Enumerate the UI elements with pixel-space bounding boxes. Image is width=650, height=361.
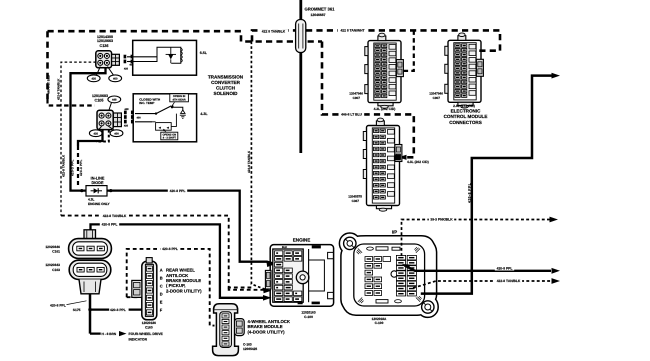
4-wheel antilock connector inner pin column	[220, 312, 232, 348]
grommet wire below capsule (solid)	[299, 53, 302, 154]
4-wheel antilock connector right tab	[235, 319, 245, 336]
svg-text:448: 448	[112, 99, 117, 102]
wire 422-8 TAN/WHT branch down into ECM connector C1	[403, 30, 414, 71]
wire 420-8 PPL solid from C161 to ENGINE	[91, 224, 267, 297]
svg-text:12047946: 12047946	[429, 91, 443, 95]
connector C136 side tab (hatched)	[112, 54, 120, 65]
svg-text:422-8 TAN/BLK: 422-8 TAN/BLK	[57, 78, 61, 100]
wire 39-3 PNK/BLK dashed from I/P	[402, 220, 550, 257]
ENGINE inner connector block	[273, 249, 303, 302]
svg-text:4 - 3 SHIFT: 4 - 3 SHIFT	[163, 137, 177, 140]
svg-text:420-8 PPL: 420-8 PPL	[50, 303, 66, 307]
svg-text:C367: C367	[352, 199, 360, 203]
ENGINE left tab (hatched pins)	[265, 270, 271, 289]
connector C105 pins	[99, 113, 104, 118]
grommet 361 capsule	[296, 20, 306, 53]
wire 420-3 PPL dashed lower stub	[77, 146, 79, 187]
svg-text:446-8 LT BLU: 446-8 LT BLU	[341, 113, 362, 117]
connector C105 shell	[97, 110, 113, 129]
I/P inner rounded frame	[354, 244, 425, 306]
label 420-8 PPL (upper left)	[100, 222, 119, 227]
svg-text:C: C	[160, 284, 163, 289]
I/P right pin double column	[396, 255, 405, 260]
svg-text:420-8 PPL: 420-8 PPL	[162, 247, 178, 251]
solenoid 6.5L internal circuit wire	[135, 47, 181, 63]
svg-text:400: 400	[129, 64, 134, 67]
connector C163 lower skirt	[79, 279, 101, 293]
wire 422-8 TAN/BLK dashed arrow right from I/P	[413, 281, 551, 288]
svg-text:FOUR-WHEEL DRIVE: FOUR-WHEEL DRIVE	[129, 332, 164, 336]
ENGINE hatched corner labels	[312, 245, 321, 248]
module C3 pin entry blob	[395, 155, 401, 160]
wire 422-8 TAN/BLK jog up to grommet	[252, 30, 295, 41]
I/P bottom small slots	[376, 300, 388, 303]
svg-text:12045575: 12045575	[348, 194, 362, 198]
wire dashed jog into connector C105	[48, 99, 96, 106]
svg-text:2.8L (173 CID): 2.8L (173 CID)	[453, 104, 475, 108]
svg-text:C136: C136	[99, 44, 108, 48]
svg-text:4.3L (262 CID): 4.3L (262 CID)	[407, 160, 429, 164]
svg-text:446-8 LT BLU: 446-8 LT BLU	[47, 75, 51, 94]
svg-text:422-8 TAN/BLK: 422-8 TAN/BLK	[497, 279, 521, 283]
ENGINE right half inner lines	[308, 249, 310, 302]
svg-text:B: B	[160, 276, 163, 281]
switch blade	[156, 106, 172, 114]
connector C160 body	[142, 261, 157, 320]
I/P inner corner hatch marks	[356, 248, 363, 255]
svg-text:420-8 PPL: 420-8 PPL	[497, 266, 513, 270]
svg-text:D: D	[160, 292, 163, 297]
svg-text:IN-LINE: IN-LINE	[91, 177, 105, 181]
svg-text:C907: C907	[353, 96, 361, 100]
svg-text:TRANSMISSION: TRANSMISSION	[208, 75, 244, 80]
svg-text:12046687: 12046687	[310, 13, 325, 17]
wire 422-8 TAN/BLK dashed harness run (top border)	[48, 31, 323, 41]
svg-text:(4-DOOR UTILITY): (4-DOOR UTILITY)	[248, 329, 286, 334]
svg-text:A: A	[160, 268, 163, 273]
svg-text:422-8 TAN/BLK: 422-8 TAN/BLK	[247, 150, 251, 173]
boxed label OPENS ON 4-3 SHIFT	[161, 132, 178, 140]
svg-text:400: 400	[113, 78, 118, 81]
ground symbol	[181, 110, 185, 113]
wire dashed drop at left border x=47.5	[46, 31, 49, 99]
terminal cavity oval 420 under C136	[87, 75, 100, 82]
svg-text:420: 420	[124, 125, 129, 128]
wire 420-8 PPL from diode to ENGINE connector	[107, 191, 280, 266]
svg-text:400: 400	[114, 133, 119, 136]
ECM module body C2 2.8L	[448, 40, 481, 102]
wire 420-8 PPL from S175 to C160 pin F	[90, 308, 142, 310]
transmission converter clutch solenoid box 6.5L	[133, 40, 197, 75]
svg-text:C161: C161	[52, 249, 60, 253]
svg-text:I/P: I/P	[392, 230, 397, 235]
svg-text:CONVERTER: CONVERTER	[211, 80, 241, 85]
connector C136 pins	[98, 53, 103, 58]
I/P left pin cluster	[365, 257, 373, 262]
svg-text:420-3 PPL: 420-3 PPL	[70, 159, 74, 176]
temperature contact box	[156, 123, 172, 131]
wire 420-8 PPL from C163 down to splice S175	[89, 294, 92, 334]
svg-text:4.3L: 4.3L	[88, 198, 94, 202]
svg-text:39-3 PNK/BLK: 39-3 PNK/BLK	[430, 218, 453, 222]
label 422-8 TAN/BLK (lower run)	[101, 214, 128, 219]
switch wire lower (4.3L)	[135, 121, 152, 123]
svg-text:C-100: C-100	[304, 315, 313, 319]
connector C160 top pin	[146, 258, 152, 263]
svg-text:INC. TEMP: INC. TEMP	[139, 101, 154, 105]
boxed label OPENS IN 4TH GEAR	[170, 94, 189, 102]
svg-text:DIODE: DIODE	[91, 181, 103, 185]
arrow into ENGINE pin (422 net)	[263, 288, 272, 294]
ENGINE plate right-edge notches	[328, 252, 334, 258]
svg-text:C105: C105	[94, 98, 103, 102]
I/P bolt hole top-left	[344, 237, 356, 249]
svg-text:BLK: BLK	[282, 246, 287, 249]
C136-to-solenoid terminal bars	[124, 55, 127, 59]
connector C161 wire tower	[84, 230, 96, 239]
I/P center bolt hole	[391, 271, 397, 277]
svg-text:C-100: C-100	[375, 321, 384, 325]
wire 422-8 TAN/BLK dashed vertical from top jog to ENGINE	[251, 42, 266, 290]
svg-text:422 8 TAN/WHT: 422 8 TAN/WHT	[340, 29, 364, 33]
splice S175 dot	[88, 308, 91, 311]
terminal cavity oval 400 under C105	[110, 130, 123, 137]
svg-text:CLUTCH: CLUTCH	[216, 85, 236, 90]
svg-text:12020846: 12020846	[45, 245, 60, 249]
terminal cavity oval 400 under C136	[109, 75, 122, 82]
svg-text:422-8 TAN/BLK: 422-8 TAN/BLK	[103, 214, 127, 218]
svg-text:INDICATOR: INDICATOR	[129, 337, 148, 341]
grommet feed wire (solid) above grommet	[299, 0, 302, 21]
svg-text:CONTROL MODULE: CONTROL MODULE	[444, 114, 488, 119]
svg-text:4TH GEAR: 4TH GEAR	[173, 99, 186, 102]
leader for 420-8 PPL label	[67, 301, 87, 305]
I/P top small slots	[376, 247, 388, 250]
terminal wires into solenoid box 6.5L	[127, 56, 157, 58]
splice dot after diode	[109, 189, 112, 192]
svg-text:CONNECTORS: CONNECTORS	[449, 120, 482, 125]
svg-text:H - 8 BRN: H - 8 BRN	[102, 332, 117, 336]
connector C136 shell	[96, 51, 112, 68]
connector C163 pin slots	[77, 267, 84, 272]
wire 420-8 PPL arrow right from I/P	[405, 265, 552, 270]
svg-text:4.3L: 4.3L	[200, 112, 208, 116]
svg-text:12047946: 12047946	[349, 92, 363, 96]
svg-text:420: 420	[124, 68, 129, 71]
svg-text:2-DOOR UTILITY): 2-DOOR UTILITY)	[166, 288, 202, 293]
connector C163 oval shell	[69, 260, 111, 279]
terminal cavity oval 420 under C105	[89, 130, 102, 137]
label 420-8 PPL (diode output)	[168, 189, 187, 194]
svg-text:12010663: 12010663	[97, 39, 113, 43]
switch wire upper (4.3L)	[135, 113, 156, 115]
svg-text:12020843: 12020843	[45, 263, 60, 267]
ECM module body C3	[367, 126, 400, 206]
svg-text:420: 420	[91, 78, 96, 81]
I/P bolt hole bottom-right	[422, 301, 434, 313]
connector C161 pin slots	[77, 246, 84, 251]
svg-text:422 8 TAN/BLK: 422 8 TAN/BLK	[262, 29, 286, 33]
svg-text:E: E	[160, 300, 163, 305]
wire 420-3 PPL solid from C136 to in-line diode	[71, 65, 106, 191]
svg-text:420-8 PPL: 420-8 PPL	[170, 189, 186, 193]
connector C160 left tab	[132, 280, 142, 297]
connector C160 inner pin column	[145, 264, 153, 316]
transmission converter clutch solenoid box 4.3L	[133, 94, 196, 142]
splice dot before diode	[80, 189, 83, 192]
svg-text:C907: C907	[433, 96, 441, 100]
connector C161 oval shell	[69, 239, 112, 259]
svg-text:C160: C160	[145, 325, 153, 329]
label 446-8 LT BLU	[339, 112, 364, 117]
svg-text:C-163: C-163	[243, 342, 252, 346]
label 422 8 TAN/BLK	[259, 29, 288, 33]
label 422 8 TAN/WHT	[338, 28, 367, 33]
I/P connector outer plate	[339, 233, 438, 317]
svg-text:12020186: 12020186	[142, 321, 156, 325]
svg-text:SOLENOID: SOLENOID	[214, 91, 239, 96]
svg-text:ENGINE ONLY: ENGINE ONLY	[88, 202, 111, 206]
svg-text:448: 448	[124, 108, 129, 111]
svg-text:GROMMET 361: GROMMET 361	[304, 7, 335, 12]
svg-text:6.5L: 6.5L	[200, 51, 208, 55]
switch wire to ground	[172, 107, 183, 110]
wire 422 fine dashed vertical from C136 down-left leg	[61, 62, 96, 216]
diode inside solenoid box 6.5L	[168, 54, 173, 59]
svg-text:1202018A: 1202018A	[372, 317, 387, 321]
arrow into ECM connector C3	[399, 155, 407, 160]
svg-text:420-8 PPL: 420-8 PPL	[110, 308, 126, 312]
terminal cavity oval 448 above C105	[108, 96, 121, 103]
svg-text:ENGINE: ENGINE	[293, 238, 311, 243]
svg-text:420-8 PPL: 420-8 PPL	[467, 183, 471, 203]
C105-to-solenoid terminal bars	[124, 111, 127, 115]
ENGINE pin grid	[275, 251, 283, 256]
ENGINE bulkhead connector outer plate	[270, 245, 333, 307]
svg-text:12065425: 12065425	[243, 347, 257, 351]
arrow into ENGINE pin (420 net via diode)	[266, 262, 275, 267]
in-line diode symbol	[94, 188, 99, 193]
svg-text:420: 420	[94, 133, 99, 136]
arrow into ENGINE pin (420 net lower)	[263, 295, 272, 301]
svg-text:12014300: 12014300	[97, 35, 113, 39]
connector C105 side tab (hatched)	[113, 113, 121, 127]
svg-text:S175: S175	[73, 308, 81, 312]
svg-text:420-8 PPL: 420-8 PPL	[102, 223, 118, 227]
label 420-8 PPL (dashed loop)	[160, 247, 179, 252]
wire 422 dashed stub from C105 lower pin	[96, 130, 109, 142]
svg-text:420-3 PPL: 420-3 PPL	[79, 159, 83, 176]
svg-text:C163: C163	[52, 268, 60, 272]
svg-text:422-8 TAN/BLK: 422-8 TAN/BLK	[61, 154, 65, 177]
wire 420-3 PPL solid from C105 down to splice	[78, 120, 103, 146]
solenoid coil bumps	[181, 48, 183, 62]
ECM module body C1 4.3L	[368, 41, 401, 103]
svg-text:ELECTRONIC: ELECTRONIC	[451, 109, 482, 114]
wire 422-8 TAN/BLK dashed lower run to ENGINE	[61, 216, 251, 288]
svg-text:400: 400	[137, 116, 142, 119]
4-wheel antilock connector body	[213, 309, 239, 355]
wire 422-8 TAN/WHT dashed from grommet to ECM connector C2	[306, 30, 500, 50]
wire 420-8 PPL from I/P to ECM (upper route)	[421, 76, 552, 294]
svg-text:12010683: 12010683	[92, 94, 108, 98]
in-line diode box	[86, 186, 107, 196]
ENGINE bolt circle	[296, 271, 309, 284]
wire H-8 BRN to four-wheel drive indicator	[90, 332, 117, 334]
wire 420-8 PPL dashed loop to C160 and 4WAL module	[127, 249, 215, 326]
4-wheel antilock connector top pin	[223, 304, 228, 310]
svg-text:12020163: 12020163	[301, 311, 315, 315]
svg-text:4.3L (262 CID): 4.3L (262 CID)	[374, 107, 396, 111]
wire 446-8 LT BLU dashed run to ECM connector C3	[322, 42, 414, 158]
